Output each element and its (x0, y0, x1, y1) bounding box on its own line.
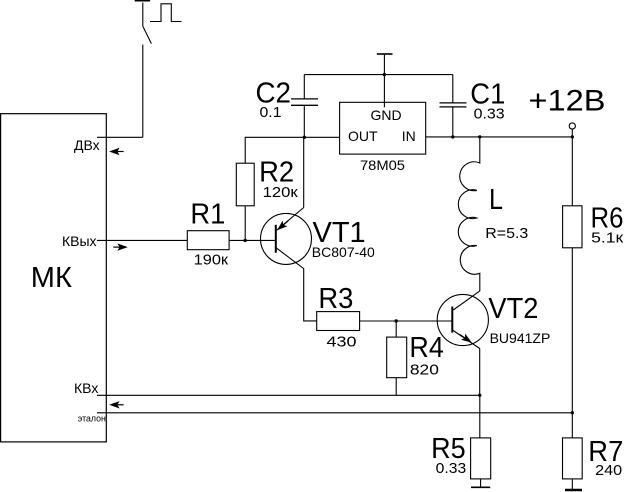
svg-text:0.33: 0.33 (436, 460, 467, 477)
svg-text:78M05: 78M05 (360, 157, 405, 173)
svg-text:КВх: КВх (74, 380, 98, 396)
wire R3 to VT2 base (360, 320, 453, 322)
junction dot L/IN (478, 135, 481, 138)
junction dot эталон/R6/R7 (571, 411, 574, 414)
capacitor C1 (440, 103, 467, 107)
MK microcontroller box U-MK (1, 114, 107, 442)
svg-text:OUT: OUT (348, 128, 378, 144)
VT2 emitter diagonal (453, 331, 480, 349)
svg-text:BC807-40: BC807-40 (312, 244, 375, 260)
wire R2 bottom lead (244, 206, 246, 241)
wire IN pin to +12V (426, 136, 573, 138)
node A junction dot (244, 239, 247, 242)
inductor L (458, 137, 480, 291)
wire C1 top vertical (452, 75, 454, 103)
transistor VT2 circle (437, 294, 488, 345)
svg-text:ДВх: ДВх (74, 137, 100, 153)
wire switch lower vertical (142, 45, 144, 138)
svg-text:0.33: 0.33 (474, 105, 505, 122)
switch terminal bar (135, 0, 150, 2)
svg-text:L: L (489, 184, 503, 216)
svg-text:430: 430 (327, 334, 357, 351)
VT1 base bar (275, 225, 277, 253)
svg-text:240: 240 (595, 462, 622, 479)
wire R2 top lead to OUT rail (245, 137, 339, 163)
svg-text:120к: 120к (263, 184, 298, 201)
svg-text:КВых: КВых (62, 233, 97, 249)
VT2 base bar (451, 307, 453, 333)
svg-text:5.1к: 5.1к (591, 229, 624, 246)
svg-text:R4: R4 (409, 332, 443, 364)
svg-text:VT2: VT2 (488, 293, 538, 325)
resistor R1 (187, 231, 229, 250)
svg-text:R=5.3: R=5.3 (485, 225, 528, 242)
svg-text:0.1: 0.1 (260, 104, 282, 121)
+12V terminal circle (569, 123, 575, 129)
wire эталон line (97, 412, 572, 414)
svg-text:R1: R1 (190, 199, 225, 231)
wire R4 bottom lead (395, 378, 397, 396)
wire ДВх pin (97, 136, 143, 138)
svg-text:820: 820 (410, 362, 439, 379)
node OUT junction dot (303, 136, 306, 139)
svg-text:эталон: эталон (78, 414, 106, 424)
wire КВх line (97, 394, 480, 396)
resistor R2 (236, 163, 254, 206)
wire КВых pin (97, 239, 187, 241)
svg-text:190к: 190к (194, 252, 229, 269)
arrow out of КВых (113, 243, 128, 250)
capacitor C2 (291, 99, 318, 105)
resistor R4 (387, 337, 407, 378)
wire GND top rail (304, 74, 453, 76)
svg-text:GND: GND (371, 107, 402, 123)
VT1 emitter diagonal (277, 208, 304, 231)
pulse waveform symbol (150, 4, 182, 22)
wire R5 bottom lead (480, 479, 482, 487)
VT1 emitter arrow (275, 218, 291, 233)
junction dot +12V node (571, 135, 574, 138)
wire ground stem (383, 55, 385, 108)
svg-text:BU941ZP: BU941ZP (490, 330, 551, 346)
arrow into эталон (109, 401, 124, 408)
wire R1 to node A (229, 239, 276, 241)
wire C2/VT1 emitter vertical upper (303, 75, 305, 99)
resistor R5 (471, 438, 491, 479)
svg-text:R3: R3 (318, 283, 353, 315)
wire C1 bottom stem (452, 107, 454, 137)
arrow into ДВх (109, 148, 124, 155)
svg-text:МК: МК (31, 262, 72, 294)
resistor R7 (563, 438, 583, 479)
ground symbol under R7 (565, 489, 582, 492)
svg-text:IN: IN (402, 128, 416, 144)
ground symbol under R5 (471, 486, 490, 488)
wire VT2 emitter vertical (479, 349, 481, 396)
junction dot ground rail (383, 73, 386, 76)
VT1 collector diagonal (276, 247, 317, 321)
wire R7 bottom lead (571, 479, 573, 490)
junction dot R3/R4/VT2 (395, 319, 398, 322)
wire terminal stem (571, 129, 573, 137)
wire R5 top lead (479, 395, 481, 438)
wire R4 top lead (395, 321, 397, 337)
wire R6 top lead (571, 137, 573, 206)
wire VT1 emitter vertical (303, 137, 305, 207)
VT2 emitter arrow (458, 331, 474, 345)
voltage regulator U1 78M05 (340, 102, 426, 154)
ground symbol top (377, 53, 393, 55)
VT2 collector diagonal (453, 291, 480, 310)
wire R6 bottom to R7 (571, 248, 573, 438)
resistor R3 (317, 312, 360, 331)
transistor VT1 circle (261, 213, 312, 264)
wire C2 bottom stem (303, 105, 305, 137)
svg-text:+12В: +12В (529, 84, 606, 117)
switch SA1 blade (143, 26, 152, 43)
switch upper wire (142, 3, 144, 27)
resistor R6 (563, 206, 582, 248)
junction dot emitter/КВх/R5 (478, 394, 481, 397)
junction dot C1/IN (451, 135, 454, 138)
